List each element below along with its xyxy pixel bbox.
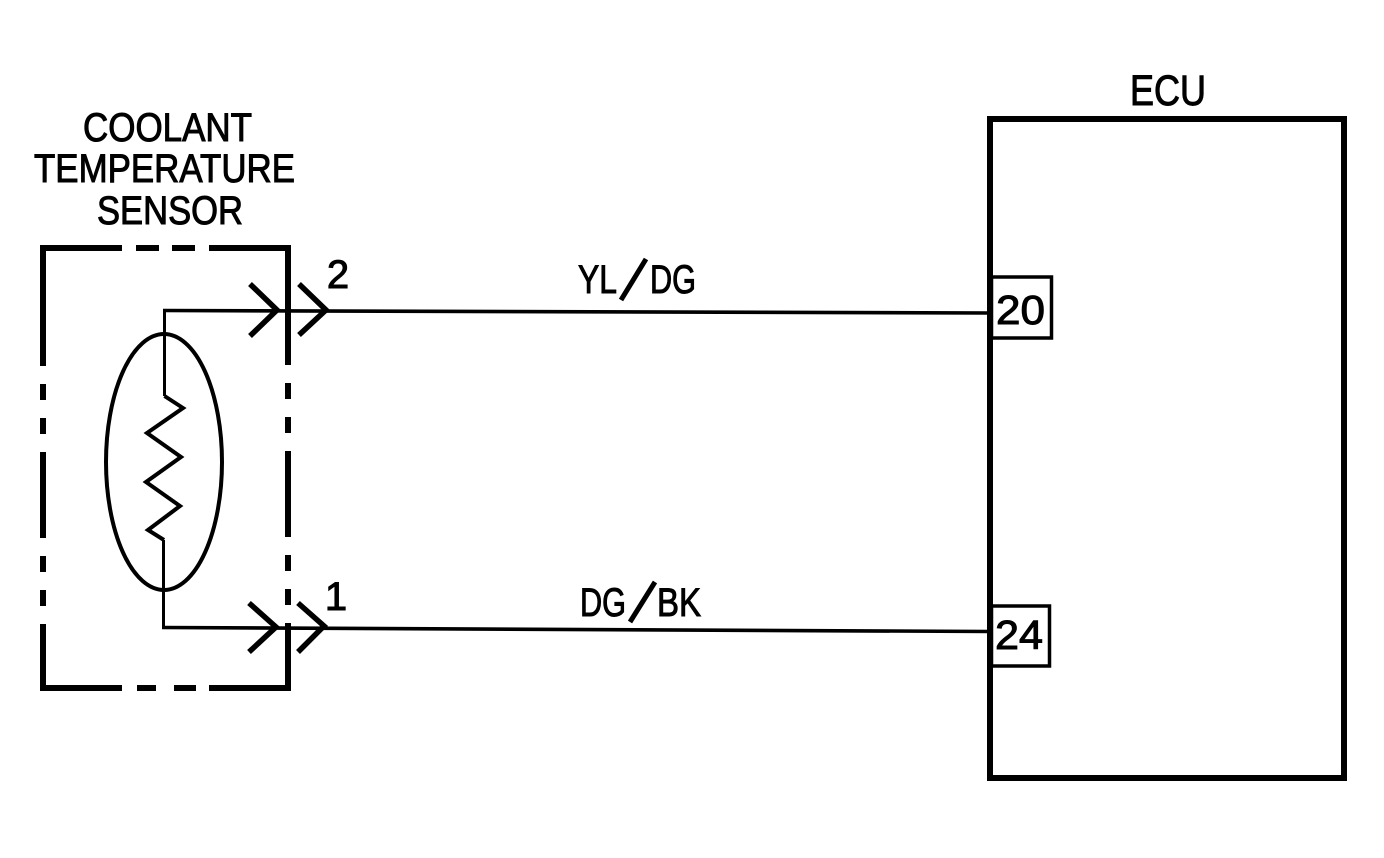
slash of YL/DG [621,259,646,300]
wire YL/DG (pin 2 to ECU pin 20) [163,311,990,314]
ECU pin 24 box [992,606,1050,666]
label YL/DG [578,258,696,302]
svg-text:DG: DG [650,258,696,302]
svg-text:YL: YL [578,258,617,302]
slash of DG/BK [630,582,655,622]
wire: top riser from resistor [163,309,166,396]
svg-text:TEMPERATURE: TEMPERATURE [34,147,295,191]
svg-text:20: 20 [996,287,1045,333]
ECU box [990,119,1344,778]
connector pin 2 chevron inner [250,284,277,336]
svg-text:24: 24 [995,612,1043,658]
svg-text:1: 1 [325,575,347,619]
svg-text:COOLANT: COOLANT [83,106,252,150]
connector pin 2 chevron outer [299,284,326,335]
svg-text:ECU: ECU [1130,67,1206,115]
svg-text:BK: BK [657,581,701,625]
wire: bottom riser from resistor [162,540,165,628]
thermistor ellipse [106,334,222,590]
wire DG/BK (pin 1 to ECU pin 24) [162,628,990,632]
svg-text:SENSOR: SENSOR [97,189,243,233]
resistor element zigzag [146,396,183,540]
connector pin 1 chevron inner [249,603,276,652]
connector pin 1 chevron outer [298,603,324,652]
ECU pin 20 box [992,277,1052,338]
svg-text:2: 2 [327,253,349,297]
coolant temperature sensor label [34,106,295,233]
sensor boundary dashed box [40,245,291,691]
svg-text:DG: DG [580,581,626,625]
label DG/BK [580,581,701,625]
